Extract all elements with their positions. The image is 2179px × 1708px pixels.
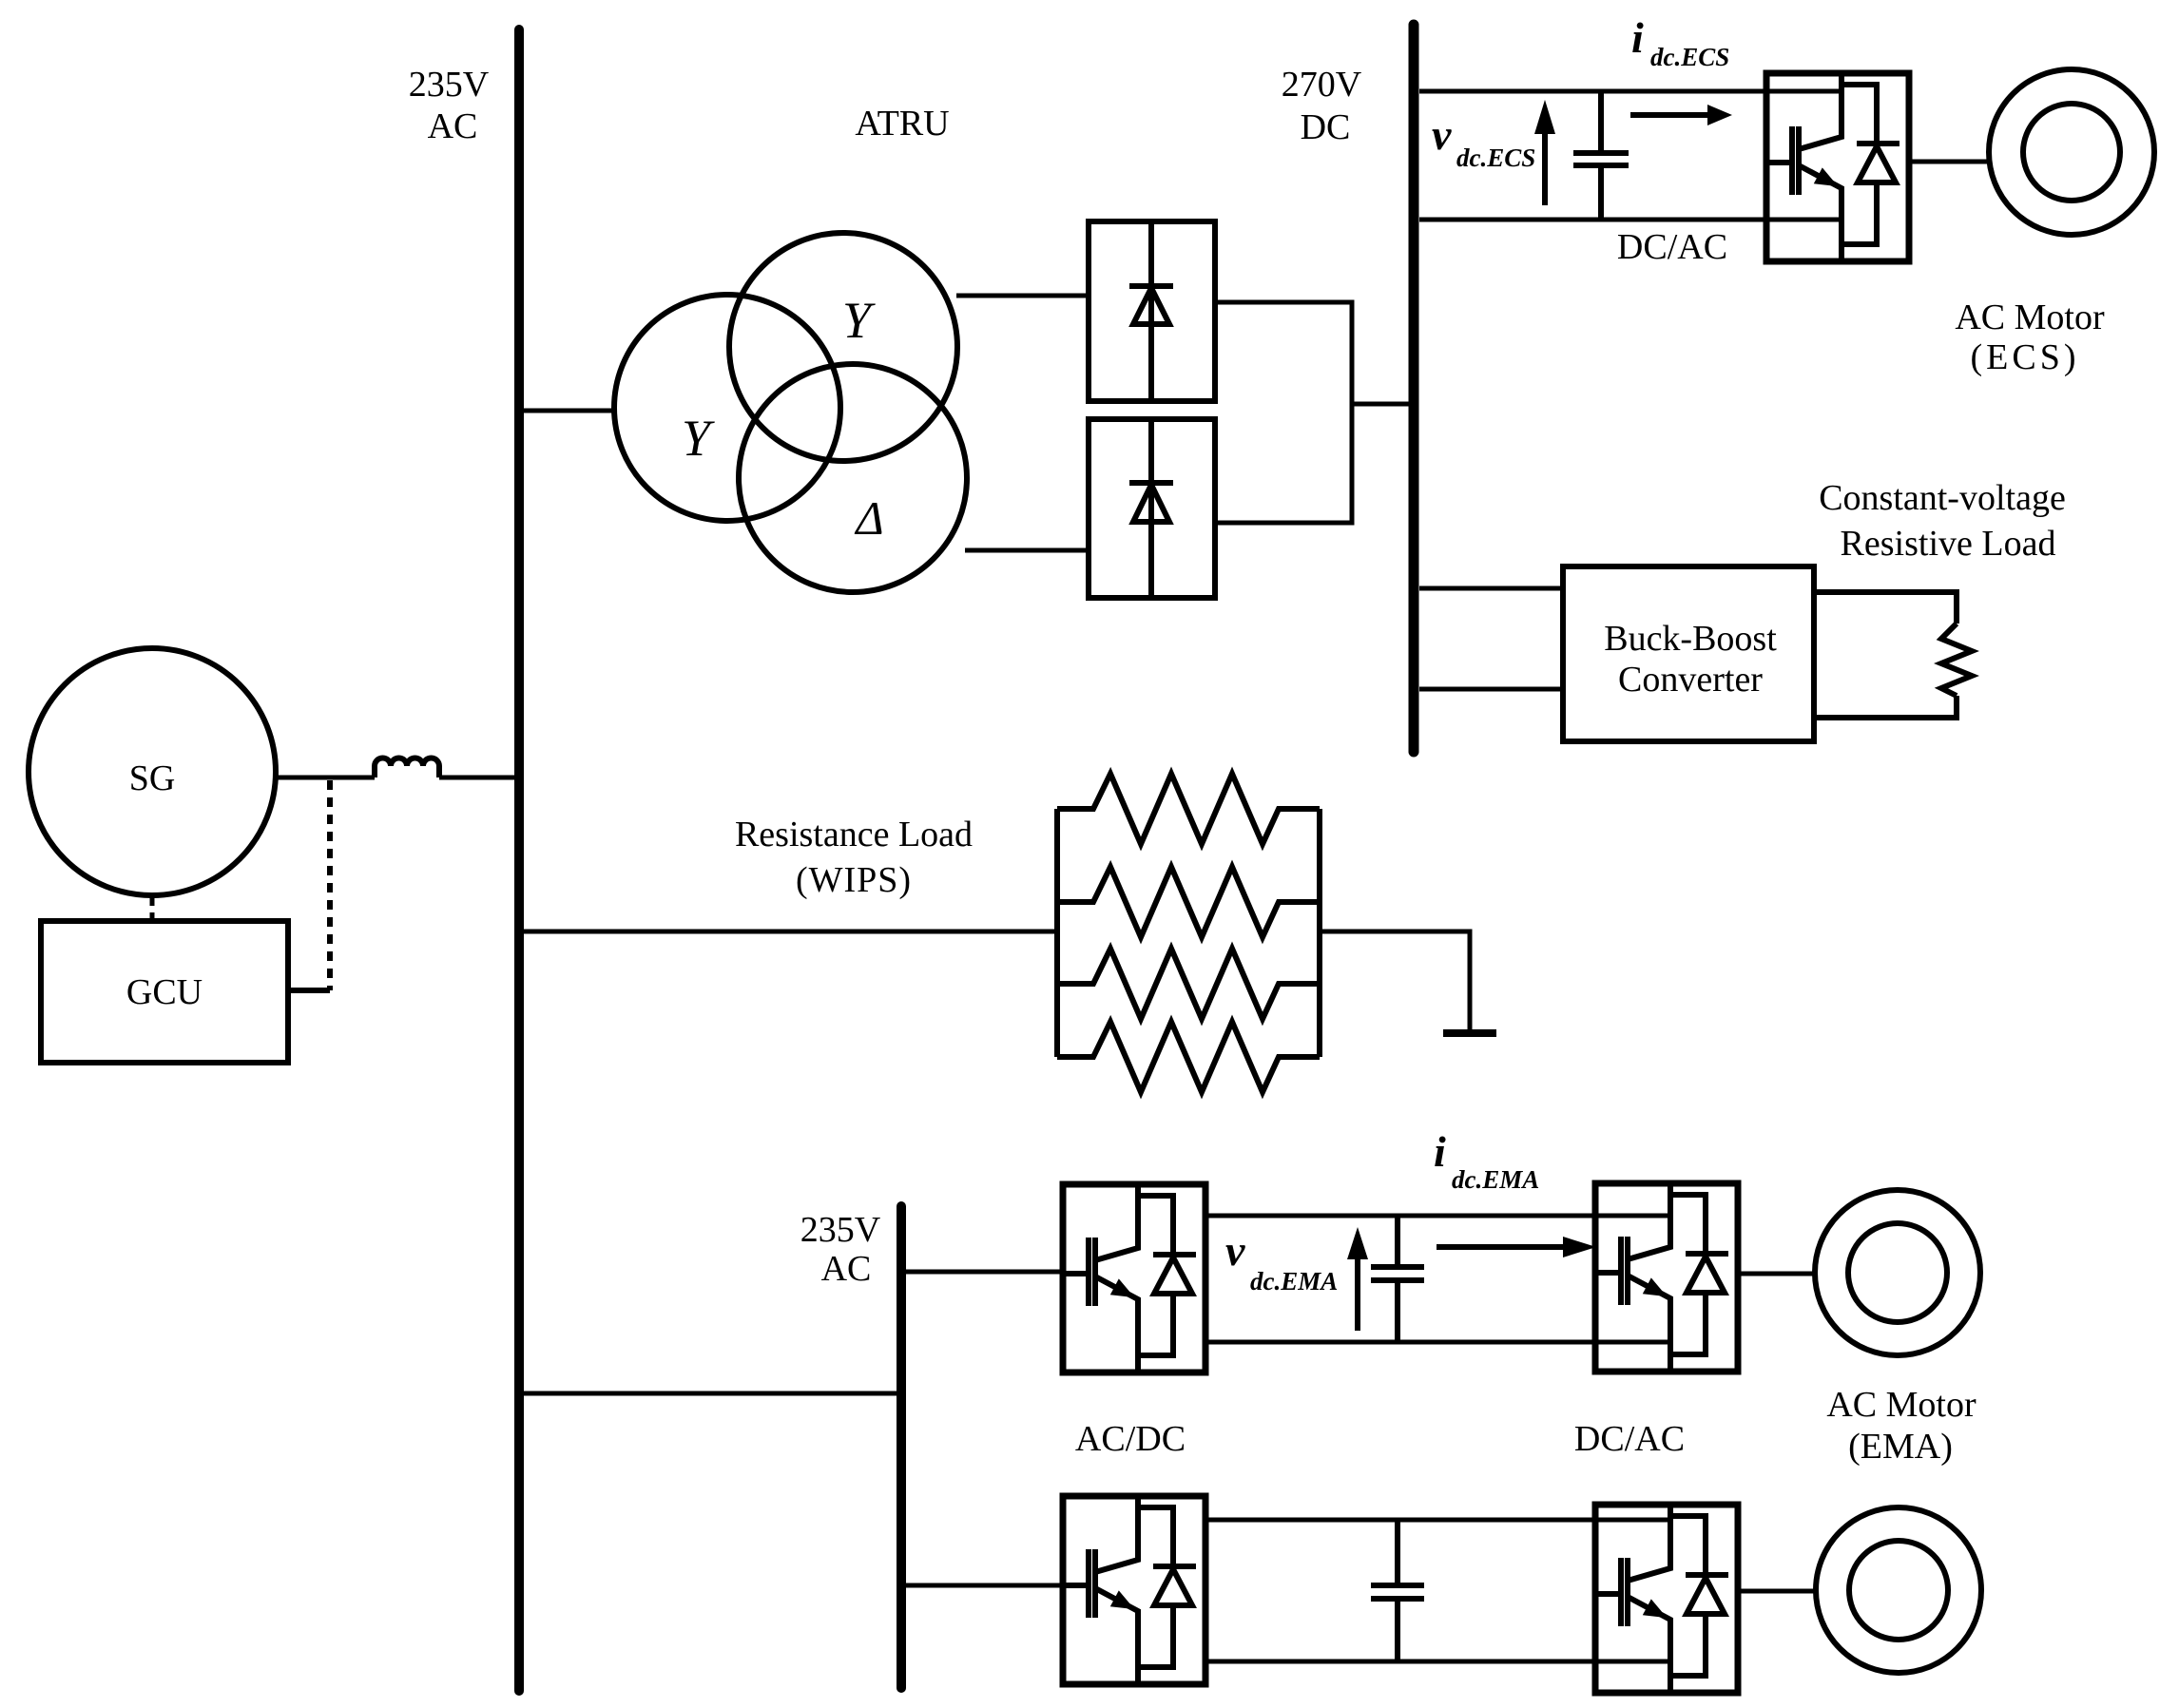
wire inverter to ECS motor: [1909, 160, 1990, 164]
bus 235V AC secondary: [897, 1206, 906, 1688]
wire bus to ATRU: [524, 409, 616, 413]
diode D1: [1148, 221, 1154, 401]
wire DC bus to buck-boost bottom: [1419, 687, 1563, 692]
converter AC/DC EMA 1: [1063, 1184, 1205, 1372]
inverter DC/AC EMA 1: [1595, 1183, 1738, 1372]
rectifier box 2: [1089, 419, 1215, 598]
svg-text:270V: 270V: [1282, 65, 1362, 105]
svg-text:(ECS): (ECS): [1971, 337, 2080, 377]
svg-text:(WIPS): (WIPS): [796, 860, 912, 900]
inverter DC/AC ECS: [1766, 73, 1909, 261]
svg-text:AC/DC: AC/DC: [1075, 1419, 1186, 1459]
svg-text:Resistance Load: Resistance Load: [735, 815, 973, 854]
transformer circle Y primary: [614, 295, 840, 521]
svg-text:dc.EMA: dc.EMA: [1452, 1165, 1539, 1194]
wire bus to AC/DC converter 1: [906, 1270, 1063, 1275]
wire WIPS to ground: [1320, 931, 1470, 1033]
wire DC link top EMA2: [1205, 1518, 1670, 1523]
wire DC link top EMA1: [1205, 1214, 1670, 1219]
WIPS resistor row 1: [1057, 774, 1320, 844]
svg-text:Buck-Boost: Buck-Boost: [1604, 619, 1777, 659]
converter AC/DC EMA 2: [1063, 1496, 1205, 1684]
svg-text:SG: SG: [129, 758, 176, 798]
arrow i dcECS: [1630, 112, 1711, 118]
svg-text:ATRU: ATRU: [855, 104, 949, 144]
wire Y to rectifier 1: [956, 294, 1089, 298]
svg-text:i: i: [1631, 13, 1644, 62]
bus 270V DC: [1409, 25, 1419, 752]
bus 235V AC main: [514, 29, 524, 1691]
ground: [1443, 1029, 1496, 1037]
wire DC bus to ECS inverter top: [1419, 89, 1842, 94]
dashed control line GCU to wire: [327, 780, 333, 990]
svg-text:v: v: [1225, 1226, 1245, 1275]
capacitor EMA 2: [1371, 1520, 1424, 1661]
wire bus to AC/DC converter 2: [906, 1583, 1063, 1588]
svg-text:DC/AC: DC/AC: [1574, 1419, 1685, 1459]
svg-text:AC: AC: [428, 106, 478, 146]
rectifier box 1: [1089, 221, 1215, 401]
svg-text:Constant-voltage: Constant-voltage: [1819, 478, 2066, 518]
wire DC link bottom EMA1: [1205, 1340, 1670, 1345]
inverter DC/AC EMA 2: [1595, 1505, 1738, 1693]
wire bus to WIPS: [524, 930, 1057, 934]
wire inverter to EMA motor 1: [1738, 1272, 1816, 1276]
svg-text:Converter: Converter: [1618, 660, 1763, 700]
wire SG to inductor: [276, 776, 375, 780]
svg-text:GCU: GCU: [126, 972, 202, 1012]
arrow v dcEMA: [1355, 1258, 1360, 1331]
svg-text:235V: 235V: [800, 1210, 881, 1250]
svg-text:dc.ECS: dc.ECS: [1456, 144, 1535, 172]
wire inverter to EMA motor 2: [1738, 1589, 1817, 1594]
svg-text:Δ: Δ: [854, 491, 883, 545]
wire DC bus to ECS inverter bottom: [1419, 218, 1842, 222]
AC motor EMA 2: [1816, 1507, 1981, 1673]
svg-text:AC Motor: AC Motor: [1955, 297, 2105, 337]
wire Delta to rectifier 2: [965, 548, 1089, 553]
svg-text:Resistive Load: Resistive Load: [1841, 524, 2056, 564]
svg-text:AC Motor: AC Motor: [1826, 1385, 1977, 1425]
wire main bus to second bus: [524, 1391, 897, 1396]
svg-text:235V: 235V: [409, 65, 490, 105]
WIPS resistor row 3: [1057, 949, 1320, 1019]
svg-text:DC: DC: [1301, 107, 1351, 147]
wire inductor to bus: [439, 776, 516, 780]
capacitor EMA 1: [1371, 1216, 1424, 1342]
svg-text:dc.EMA: dc.EMA: [1250, 1267, 1338, 1295]
wire SG to GCU dashed: [150, 897, 155, 921]
wire rectifier outputs to DC bus: [1215, 302, 1409, 523]
inductor L: [375, 758, 439, 778]
diode D2: [1148, 419, 1154, 598]
wire GCU to dashed line: [288, 988, 330, 993]
arrow i dcEMA: [1437, 1244, 1569, 1250]
generator SG: [29, 648, 276, 895]
AC motor EMA 1: [1815, 1190, 1980, 1355]
capacitor ECS: [1573, 91, 1629, 220]
transformer circle Y secondary: [729, 233, 957, 461]
WIPS resistor row 4: [1057, 1022, 1320, 1092]
svg-text:i: i: [1434, 1127, 1446, 1176]
svg-text:dc.ECS: dc.ECS: [1650, 43, 1729, 71]
buck-boost converter box: [1563, 566, 1814, 741]
wire buck-boost to load resistor: [1814, 592, 1957, 718]
WIPS resistor bank right rail: [1317, 809, 1322, 1057]
svg-text:v: v: [1432, 110, 1452, 159]
GCU box: [41, 921, 288, 1063]
WIPS resistor bank left rail: [1054, 809, 1060, 1057]
transformer circle Delta secondary: [739, 364, 967, 592]
WIPS resistor row 2: [1057, 867, 1320, 937]
svg-text:(EMA): (EMA): [1848, 1427, 1953, 1467]
arrow v dcECS: [1542, 133, 1548, 205]
svg-text:Y: Y: [842, 292, 876, 349]
svg-text:DC/AC: DC/AC: [1617, 227, 1727, 267]
wire DC bus to buck-boost top: [1419, 586, 1563, 591]
wire DC link bottom EMA2: [1205, 1660, 1670, 1664]
resistor constant voltage load: [1941, 624, 1972, 696]
svg-text:Y: Y: [682, 410, 715, 467]
AC motor ECS: [1989, 69, 2154, 235]
svg-text:AC: AC: [821, 1249, 872, 1289]
